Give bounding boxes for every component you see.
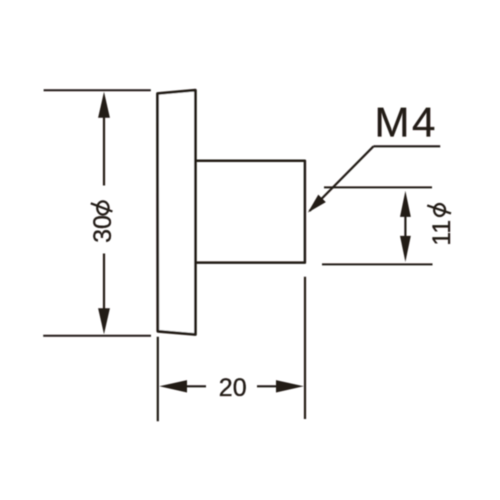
svg-text:20: 20 [219, 374, 247, 402]
svg-text:11: 11 [428, 220, 456, 246]
svg-text:30: 30 [89, 215, 117, 243]
svg-text:M4: M4 [375, 99, 438, 146]
